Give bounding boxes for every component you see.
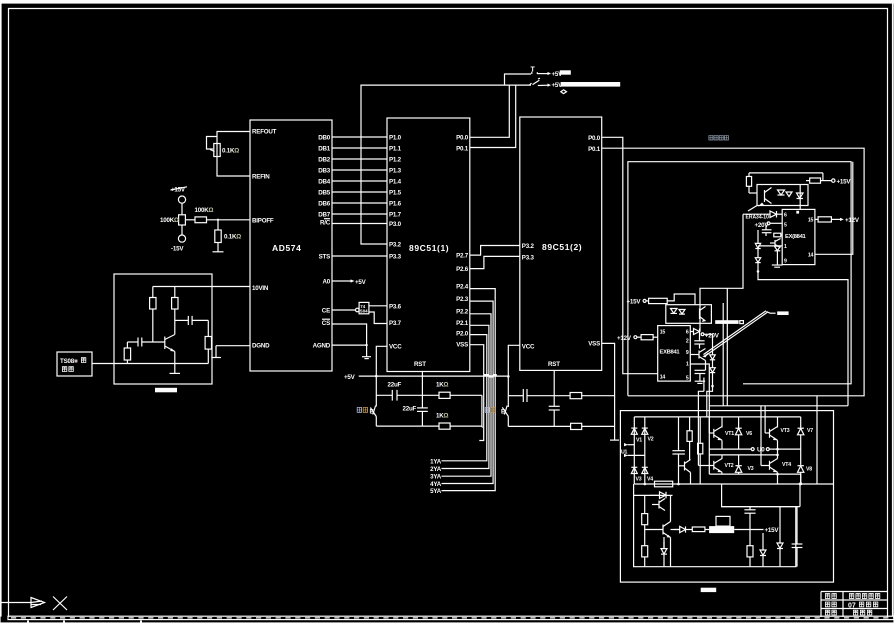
resistor 0.1K vertical [215, 230, 221, 243]
svg-text:P0.0: P0.0 [456, 135, 469, 142]
resistor small [774, 233, 781, 237]
wire filter cap column [678, 417, 680, 451]
wire [181, 203, 183, 215]
wire DB5 [332, 191, 387, 193]
wire P0.1(1) pullup [470, 85, 516, 147]
wire mid rail U0 [709, 448, 751, 450]
wire gate rail [709, 405, 848, 407]
wire pin1 connect [758, 245, 782, 247]
diode ds2 [674, 529, 680, 531]
svg-text:VT2: VT2 [725, 463, 734, 469]
resistor rs3 [692, 527, 705, 532]
wire bridge top rail [634, 416, 800, 418]
svg-text:EXB841: EXB841 [660, 350, 681, 356]
svg-text:DB6: DB6 [318, 201, 331, 208]
wire pin15 to +12V [815, 218, 818, 220]
H-bridge outer box [620, 411, 833, 582]
wire top rail [749, 172, 823, 174]
capacitor c-lo2 [695, 369, 706, 371]
driver IC U5 EXB841 box [782, 209, 815, 264]
resistor pullup [748, 173, 750, 177]
svg-text:3YA: 3YA [430, 474, 442, 481]
label banji [825, 602, 836, 607]
resistor on rail [655, 481, 673, 487]
window top edge gradient bar [0, 0, 894, 1]
svg-text:DGND: DGND [252, 343, 270, 350]
svg-text:S04: S04 [360, 309, 368, 314]
svg-text:P3.3: P3.3 [522, 255, 535, 262]
pin labels [784, 213, 787, 265]
svg-text:14: 14 [808, 252, 814, 258]
svg-text:22uF: 22uF [388, 382, 402, 389]
svg-text:5: 5 [784, 222, 787, 228]
wire DB7 [332, 213, 387, 215]
svg-text:6: 6 [784, 213, 787, 219]
svg-text:DB4: DB4 [318, 179, 331, 186]
svg-text:+5V: +5V [355, 279, 367, 286]
svg-text:9: 9 [686, 350, 689, 356]
svg-text:P2.6: P2.6 [456, 266, 469, 273]
svg-text:P2.1: P2.1 [456, 320, 469, 327]
wire collector up [670, 495, 672, 521]
wire +5V rail [359, 375, 509, 377]
wire REFOUT loop [217, 132, 250, 177]
red marker glyph [561, 90, 567, 94]
svg-text:P1.4: P1.4 [389, 179, 402, 186]
wire inter-cell link [700, 214, 743, 331]
svg-text:P0.0: P0.0 [588, 135, 601, 142]
diode V8 [800, 449, 802, 465]
wire q-lo emitter down [705, 361, 707, 371]
svg-text:RST: RST [548, 361, 560, 368]
svg-text:VSS: VSS [456, 342, 468, 349]
wire DB4 [332, 180, 387, 182]
wire VCC(2) [508, 345, 520, 376]
wire AGND [332, 344, 367, 346]
optocoupler U6 box [666, 305, 712, 324]
wire lower rail [634, 483, 833, 485]
svg-text:P1.2: P1.2 [389, 157, 402, 164]
capacitor input [127, 341, 138, 343]
capacitor c-lo1 [699, 335, 701, 341]
highlight bar 3 [777, 311, 788, 315]
svg-text:R/C: R/C [320, 220, 331, 227]
svg-text:-15V: -15V [171, 246, 184, 253]
wire P2.3 [442, 301, 494, 483]
transistor Qb [684, 462, 686, 471]
pin labels [660, 330, 666, 381]
diode d-up2 [775, 246, 781, 250]
89C51(1) right pin labels [456, 135, 469, 349]
svg-text:5YA: 5YA [430, 488, 442, 495]
wire bottom rail [127, 363, 208, 365]
svg-text:P2.3: P2.3 [456, 296, 469, 303]
wire gate bus right [762, 280, 849, 406]
switch S1 blade [531, 72, 533, 74]
svg-text:V2: V2 [648, 437, 654, 443]
svg-text:+5V: +5V [344, 374, 356, 381]
svg-text:V6: V6 [746, 431, 752, 437]
capacitor filter [672, 450, 685, 452]
svg-text:CS: CS [322, 320, 330, 327]
UCS icon axis line [0, 602, 31, 604]
label kongzhidianlutu [849, 594, 879, 599]
wire wiper [185, 219, 195, 221]
wire sensor output [92, 363, 127, 365]
89C51(2) right pin labels [588, 135, 601, 348]
capacitor 22uF (1) [391, 390, 393, 401]
wire P2.1 [442, 325, 489, 468]
wire P2.7 to P3.2(2) [470, 246, 520, 256]
wire +15V feed [822, 173, 824, 181]
resistor 1K (1) [439, 392, 450, 398]
zener zs1 [762, 533, 764, 550]
svg-text:1KΩ: 1KΩ [436, 413, 449, 420]
svg-text:CE: CE [322, 308, 330, 315]
89C51(2) left pin labels [522, 243, 535, 351]
89C51(1) box [387, 118, 470, 372]
diode V3b [738, 455, 740, 465]
opto phototransistor [699, 309, 701, 320]
ground lo cluster [695, 380, 705, 382]
resistor rs2 [642, 546, 648, 557]
wire RST(1) stem [421, 372, 423, 396]
wire emitter down [174, 352, 176, 364]
svg-text:89C51(1): 89C51(1) [409, 243, 449, 253]
capacitor cs1 [749, 507, 751, 510]
highlight bar 1 [560, 70, 571, 74]
wire mid rail right [721, 506, 723, 508]
transistor qs2 [662, 525, 664, 535]
wire DGND [216, 345, 250, 347]
diode ds3 [663, 537, 665, 548]
wire top inner rail [634, 494, 673, 496]
highlight bar below box [701, 588, 717, 592]
wire rail3 [508, 395, 523, 397]
driver IC U7 EXB841 box [658, 326, 691, 382]
sub-circuit inner box left [634, 484, 796, 567]
wire small link loop [207, 137, 218, 150]
diode V3 [631, 468, 637, 474]
svg-text:V8: V8 [806, 466, 812, 472]
wire P2.4 [442, 289, 496, 491]
svg-text:5: 5 [686, 376, 689, 382]
opto LED diodes [778, 190, 785, 195]
wire VSS(1) ground run [470, 345, 484, 441]
wire down [217, 220, 219, 230]
svg-text:0.1KΩ: 0.1KΩ [222, 148, 239, 155]
capacitor (2b) [549, 405, 560, 407]
svg-text:REFOUT: REFOUT [252, 129, 277, 136]
svg-text:1KΩ: 1KΩ [436, 382, 449, 389]
resistor feed2 [637, 336, 641, 338]
capacitor 22uF (2) vertical [421, 395, 423, 408]
terminal circle top [178, 196, 185, 203]
zener Z4 [710, 368, 715, 373]
highlight bar 2 [561, 82, 621, 87]
window left edge [0, 0, 1, 616]
transistor q-lo [698, 351, 700, 359]
wire CS down to AGND rail [332, 324, 367, 345]
node junction MCU2 [507, 375, 510, 378]
wire STS to P3.3 [332, 255, 387, 257]
wire long net to P3.2 [361, 85, 531, 244]
wire rectifier right leg [644, 417, 646, 484]
svg-text:P3.0: P3.0 [389, 221, 402, 228]
capacitor output [175, 319, 189, 321]
svg-text:V3: V3 [636, 477, 642, 483]
svg-text:P3.7: P3.7 [389, 320, 402, 327]
node junction [757, 270, 760, 273]
svg-text:P2.7: P2.7 [456, 253, 469, 260]
wire right feed drop [816, 396, 818, 484]
svg-text:VT3: VT3 [781, 428, 790, 434]
wire base link [645, 529, 663, 531]
optocoupler U4 box [757, 185, 808, 206]
svg-text:P1.6: P1.6 [389, 201, 402, 208]
wire left column [644, 495, 646, 513]
wire branch to P3.7 [369, 312, 387, 324]
IGBT VT4 [769, 461, 771, 470]
sensor box TS08 [57, 352, 92, 376]
diode V1 [631, 428, 637, 434]
svg-text:V3: V3 [748, 466, 754, 472]
wire Qb emitter [690, 473, 692, 485]
white highlight bar under amp box [155, 388, 177, 393]
diode into pin6 [690, 331, 693, 333]
label xingming [825, 610, 836, 615]
UCS icon X glyph [53, 597, 67, 611]
wire emitter chain [670, 538, 672, 567]
pin2 square mark [796, 211, 799, 214]
svg-text:EX(8841: EX(8841 [785, 234, 807, 240]
svg-text:+12V: +12V [617, 335, 632, 342]
wire gate VT2 drop [703, 378, 705, 392]
bottom dashed status strip [8, 616, 894, 619]
overline on R/C and CS [324, 218, 330, 220]
capacitor cs2 [796, 507, 798, 544]
node junction [365, 344, 367, 346]
opto phototransistor [764, 190, 766, 202]
wire rail4 [508, 425, 570, 427]
ground tick [610, 439, 619, 441]
wire P2.6 to P3.3(2) [470, 256, 520, 268]
svg-text:1: 1 [784, 244, 787, 250]
node junction [711, 385, 714, 388]
potentiometer 100K body [179, 215, 186, 225]
svg-text:V4: V4 [647, 477, 653, 483]
svg-text:A0: A0 [322, 279, 330, 286]
IGBT VT1 [721, 417, 723, 428]
amplifier box [114, 274, 212, 384]
wire inverter out to P3.6 [369, 305, 387, 307]
svg-text:+15V: +15V [837, 178, 852, 185]
svg-text:+15V: +15V [627, 299, 642, 306]
wire switch S1 [505, 74, 532, 85]
resistor Ra4 [207, 320, 209, 336]
ground in amp box [174, 364, 176, 374]
inverter 7404 box [359, 302, 369, 313]
wire P0.0(1) pullup [470, 85, 510, 137]
label name [853, 610, 871, 615]
transistor qs1 [658, 501, 660, 509]
svg-text:6: 6 [686, 330, 689, 336]
svg-text:P2.2: P2.2 [456, 309, 469, 316]
resistor Rb1 column [689, 417, 691, 431]
wire branch down [507, 376, 509, 407]
ground under cluster [776, 251, 778, 265]
label mingcheng [825, 594, 836, 599]
title block frame [821, 591, 888, 593]
wire down to ground [217, 243, 219, 252]
wire RST(2) stem [553, 370, 555, 406]
svg-text:P3.6: P3.6 [389, 304, 402, 311]
wire P0.1(2) loop around driver [602, 148, 864, 396]
resistor Ra2 [174, 287, 176, 298]
wire +20V to pin5 [770, 222, 782, 224]
terminal circle bottom [178, 235, 185, 242]
diode V7 [800, 417, 802, 428]
svg-text:VT1: VT1 [725, 431, 734, 437]
svg-text:14: 14 [660, 375, 666, 381]
wire rectifier left leg [633, 417, 635, 484]
ground DGND [211, 357, 221, 359]
wire pin9 down to gate bus [758, 271, 762, 279]
wire rail2 [376, 425, 439, 427]
wire pin14 right [815, 162, 853, 255]
svg-text:P3.2: P3.2 [389, 242, 402, 249]
resistor 1K (2) [439, 423, 450, 429]
svg-text:P2.4: P2.4 [456, 284, 469, 291]
highlight bar selected label [709, 526, 734, 533]
wire mid rail lower [709, 454, 777, 456]
IGBT VT3 [777, 417, 779, 428]
wire down to bridge gates [707, 386, 713, 417]
wire +20V circle link [704, 333, 713, 335]
switch S2 blade [530, 83, 532, 85]
resistor rs1 [642, 514, 648, 525]
svg-text:DB2: DB2 [318, 157, 331, 164]
svg-text:V1: V1 [636, 438, 642, 444]
wire bridge bottom rail [709, 473, 800, 475]
svg-text:VCC: VCC [389, 344, 402, 351]
svg-text:P1.5: P1.5 [389, 190, 402, 197]
resistor (2b) [571, 423, 582, 429]
driver inner box [628, 162, 851, 396]
wire top rail to 10VIN [153, 286, 250, 288]
wire DB1 [332, 147, 387, 149]
wire VSS(2) ground run [602, 343, 615, 440]
wire CE to inverter [332, 309, 356, 311]
svg-text:DB1: DB1 [318, 146, 331, 153]
zener Z2 [755, 258, 760, 263]
svg-text:2: 2 [686, 338, 689, 344]
node junction [217, 219, 219, 221]
zener zs2 [779, 507, 781, 543]
svg-text:1: 1 [686, 362, 689, 368]
partial text marks below strip [27, 621, 29, 623]
resistor (2a) [570, 393, 582, 399]
wire to opto [667, 294, 695, 305]
svg-text:0.1KΩ: 0.1KΩ [224, 234, 241, 241]
wire R/C to P3.0 [332, 223, 387, 225]
svg-text:22uF: 22uF [403, 406, 417, 413]
svg-text:DB5: DB5 [318, 190, 331, 197]
diode V6 [738, 417, 740, 428]
svg-text:10VIN: 10VIN [252, 285, 269, 292]
diode D up [770, 211, 777, 218]
svg-text:V7: V7 [807, 428, 813, 434]
wire DB0 [332, 136, 387, 138]
svg-text:9: 9 [784, 258, 787, 264]
diode V2 [642, 428, 648, 434]
wire DB3 [332, 169, 387, 171]
node junction MCU1 [375, 375, 378, 378]
wire DB2 [332, 158, 387, 160]
svg-text:100KΩ: 100KΩ [160, 217, 179, 224]
switch reset S3 [370, 408, 376, 417]
wire opto out to EXB top [799, 185, 801, 210]
ground AGND [366, 345, 368, 356]
svg-text:15: 15 [660, 330, 666, 336]
svg-text:15: 15 [808, 218, 814, 224]
89C51(2) box [520, 117, 602, 370]
wire VT3 gate drop [764, 406, 766, 433]
svg-text:TS08■: TS08■ [60, 358, 78, 365]
switch reset S4 [502, 407, 508, 416]
zener Z3 [712, 334, 714, 354]
highlight bar 4 [715, 320, 738, 324]
svg-text:P2.0: P2.0 [456, 331, 469, 338]
wire gate verticals to bridge [722, 303, 724, 406]
svg-text:VT4: VT4 [782, 462, 791, 468]
resistor 100K horizontal [195, 217, 207, 223]
window right edge [893, 0, 894, 616]
wire input net [743, 213, 770, 215]
wire VCC(1) [376, 346, 387, 376]
ground [213, 251, 224, 253]
wire [181, 225, 183, 235]
diode ds1 [650, 494, 659, 496]
resistor Rb2 column [699, 417, 701, 443]
svg-text:VSS: VSS [588, 341, 600, 348]
op-amp ADC U1 AD574 box [250, 120, 332, 371]
svg-text:P0.1: P0.1 [588, 146, 601, 153]
svg-text:REFIN: REFIN [252, 174, 270, 181]
svg-text:ERA34-10: ERA34-10 [746, 215, 770, 221]
resistor feed [646, 300, 649, 302]
wire right vertical joining rails [481, 395, 483, 427]
resistor 0.1K (REFOUT-REFIN) [214, 144, 220, 157]
89C51(1) left pin labels [389, 135, 402, 351]
wire P2.0 [442, 335, 487, 461]
wire P2.2 [442, 314, 492, 476]
wire to +15V [734, 529, 763, 531]
leader diagonal annotation [704, 311, 767, 355]
capacitor (2a) [522, 389, 524, 402]
svg-text:100KΩ: 100KΩ [195, 207, 214, 214]
svg-text:89C51(2): 89C51(2) [542, 242, 582, 252]
relay coil box [716, 516, 730, 526]
AD574 right pin labels [313, 135, 331, 350]
wire bridge left side [708, 417, 710, 474]
wire rail1 [376, 394, 392, 396]
svg-text:P1.1: P1.1 [389, 146, 402, 153]
svg-text:07: 07 [848, 603, 856, 610]
svg-text:P0.1: P0.1 [456, 146, 469, 153]
wire ac input 1 [628, 444, 635, 446]
wire gate VT1 [690, 364, 709, 433]
